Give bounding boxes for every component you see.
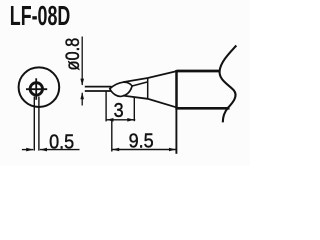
svg-text:ø0.8: ø0.8 xyxy=(62,38,84,71)
svg-text:9.5: 9.5 xyxy=(129,131,154,153)
svg-text:3: 3 xyxy=(114,100,124,122)
svg-text:LF-08D: LF-08D xyxy=(10,0,70,31)
svg-text:0.5: 0.5 xyxy=(49,131,74,153)
